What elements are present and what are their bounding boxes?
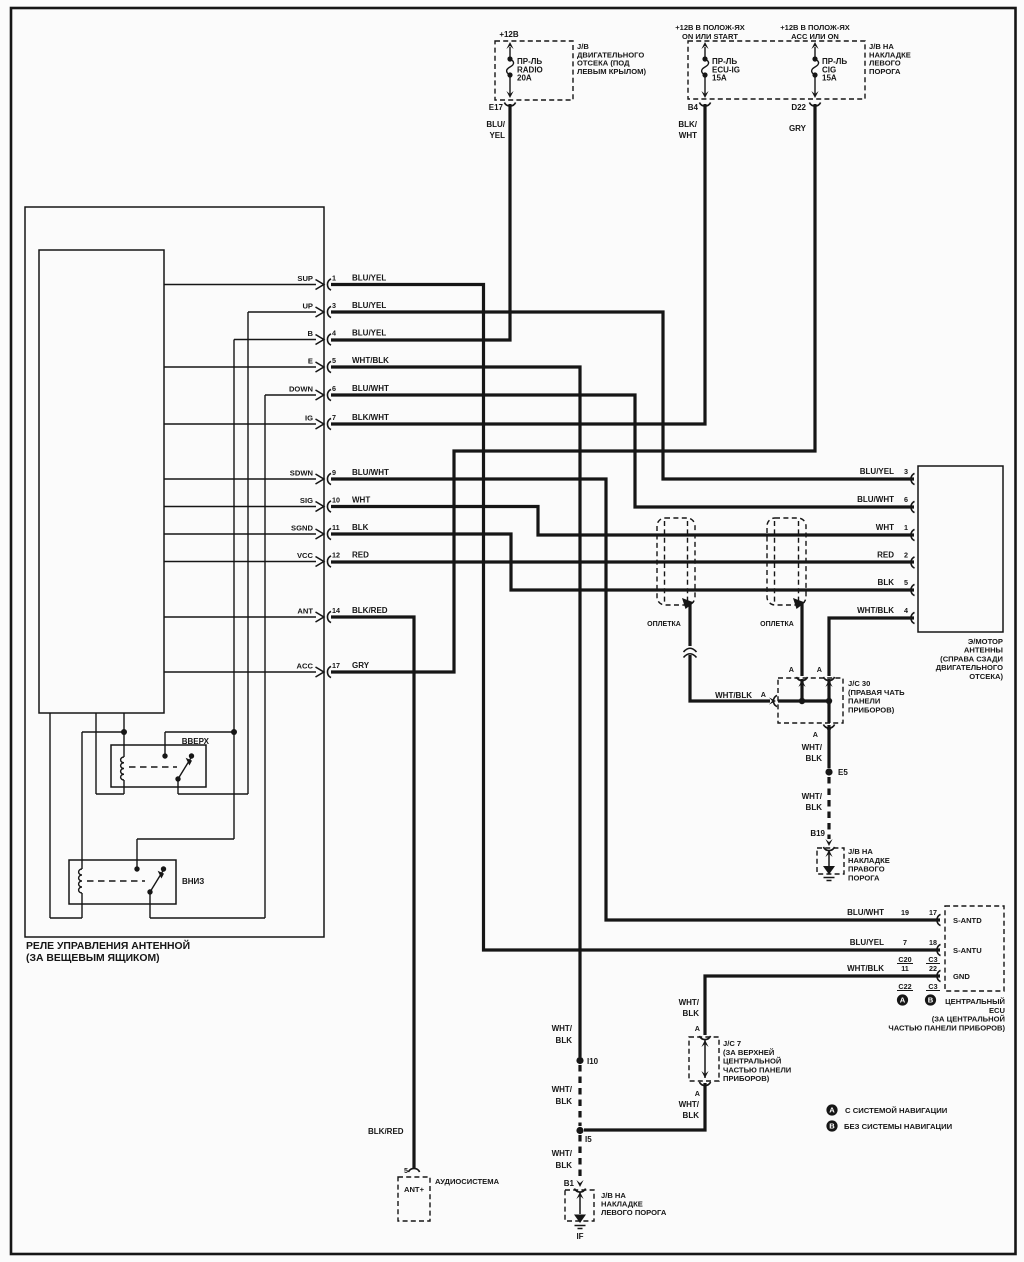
svg-text:C22: C22: [898, 982, 911, 991]
svg-text:(ЗА ВЕЩЕВЫМ ЯЩИКОМ): (ЗА ВЕЩЕВЫМ ЯЩИКОМ): [26, 953, 160, 964]
svg-text:ПРАВОГО: ПРАВОГО: [848, 865, 885, 874]
svg-text:(ЗА ЦЕНТРАЛЬНОЙ: (ЗА ЦЕНТРАЛЬНОЙ: [932, 1015, 1005, 1024]
svg-text:BLU/WHT: BLU/WHT: [352, 468, 389, 477]
svg-text:17: 17: [929, 908, 937, 917]
svg-text:3: 3: [904, 467, 908, 476]
svg-text:D22: D22: [791, 103, 806, 112]
svg-text:18: 18: [929, 938, 937, 947]
svg-text:BLU/YEL: BLU/YEL: [860, 467, 894, 476]
svg-text:(СПРАВА СЗАДИ: (СПРАВА СЗАДИ: [940, 654, 1003, 663]
svg-text:BLK: BLK: [878, 578, 895, 587]
svg-text:RED: RED: [352, 551, 369, 560]
svg-text:SGND: SGND: [291, 524, 313, 533]
svg-text:BLK/RED: BLK/RED: [352, 606, 388, 615]
svg-text:GRY: GRY: [789, 124, 807, 133]
svg-text:BLU/YEL: BLU/YEL: [352, 329, 386, 338]
svg-text:IF: IF: [576, 1232, 583, 1241]
svg-text:J/C 7: J/C 7: [723, 1039, 741, 1048]
svg-text:A: A: [817, 665, 822, 674]
svg-text:RED: RED: [877, 551, 894, 560]
svg-text:НАКЛАДКЕ: НАКЛАДКЕ: [848, 856, 890, 865]
svg-text:J/B НА: J/B НА: [848, 847, 873, 856]
svg-text:1: 1: [904, 523, 908, 532]
svg-text:15A: 15A: [822, 74, 837, 83]
svg-text:ЧАСТЬЮ ПАНЕЛИ: ЧАСТЬЮ ПАНЕЛИ: [723, 1065, 791, 1074]
svg-text:19: 19: [901, 908, 909, 917]
svg-text:C3: C3: [928, 955, 937, 964]
svg-text:14: 14: [332, 606, 340, 615]
svg-text:4: 4: [904, 606, 908, 615]
svg-text:WHT/BLK: WHT/BLK: [857, 606, 894, 615]
svg-text:WHT: WHT: [352, 496, 370, 505]
svg-text:АУДИОСИСТЕМА: АУДИОСИСТЕМА: [435, 1177, 500, 1186]
svg-text:Э/МОТОР: Э/МОТОР: [968, 637, 1003, 646]
svg-text:20A: 20A: [517, 74, 532, 83]
svg-text:ОПЛЕТКА: ОПЛЕТКА: [647, 621, 681, 628]
svg-text:BLK: BLK: [556, 1036, 573, 1045]
svg-text:ON ИЛИ START: ON ИЛИ START: [682, 32, 738, 41]
svg-text:WHT/: WHT/: [802, 743, 823, 752]
svg-text:GND: GND: [953, 972, 970, 981]
svg-text:4: 4: [332, 329, 336, 338]
svg-text:WHT/: WHT/: [679, 998, 700, 1007]
svg-text:DOWN: DOWN: [289, 385, 313, 394]
svg-text:B1: B1: [564, 1179, 575, 1188]
svg-text:БЕЗ СИСТЕМЫ НАВИГАЦИИ: БЕЗ СИСТЕМЫ НАВИГАЦИИ: [844, 1122, 953, 1131]
svg-text:BLK/WHT: BLK/WHT: [352, 413, 389, 422]
svg-text:7: 7: [903, 938, 907, 947]
svg-text:BLK/RED: BLK/RED: [368, 1127, 404, 1136]
svg-text:2: 2: [904, 551, 908, 560]
svg-text:BLK: BLK: [556, 1161, 573, 1170]
svg-text:BLK: BLK: [683, 1009, 700, 1018]
svg-text:E: E: [308, 357, 313, 366]
svg-text:BLU/WHT: BLU/WHT: [857, 495, 894, 504]
svg-text:10: 10: [332, 496, 340, 505]
svg-text:A: A: [829, 1106, 835, 1115]
svg-text:ВВЕРХ: ВВЕРХ: [182, 737, 210, 746]
svg-text:5: 5: [332, 356, 336, 365]
svg-text:ACC ИЛИ ON: ACC ИЛИ ON: [791, 32, 839, 41]
svg-text:ECU: ECU: [989, 1006, 1006, 1015]
svg-text:7: 7: [332, 413, 336, 422]
svg-text:B: B: [928, 996, 934, 1005]
svg-text:6: 6: [904, 495, 908, 504]
svg-text:15A: 15A: [712, 74, 727, 83]
svg-text:WHT/BLK: WHT/BLK: [715, 691, 752, 700]
svg-text:WHT/: WHT/: [552, 1085, 573, 1094]
svg-text:ОТСЕКА): ОТСЕКА): [969, 672, 1003, 681]
svg-text:BLU/WHT: BLU/WHT: [847, 908, 884, 917]
svg-text:ПРИБОРОВ): ПРИБОРОВ): [723, 1074, 770, 1083]
svg-text:АНТЕННЫ: АНТЕННЫ: [964, 646, 1003, 655]
svg-text:GRY: GRY: [352, 661, 370, 670]
svg-text:+12В В ПОЛОЖ-ЯХ: +12В В ПОЛОЖ-ЯХ: [675, 23, 744, 32]
svg-text:11: 11: [901, 964, 909, 973]
svg-text:B: B: [829, 1122, 835, 1131]
svg-text:BLU/WHT: BLU/WHT: [352, 384, 389, 393]
svg-text:WHT/BLK: WHT/BLK: [847, 964, 884, 973]
svg-text:A: A: [695, 1024, 700, 1033]
svg-text:ЛЕВОГО ПОРОГА: ЛЕВОГО ПОРОГА: [601, 1208, 667, 1217]
svg-text:J/C 30: J/C 30: [848, 679, 870, 688]
svg-text:I10: I10: [587, 1057, 599, 1066]
svg-text:(ЗА ВЕРХНЕЙ: (ЗА ВЕРХНЕЙ: [723, 1048, 774, 1057]
svg-text:5: 5: [404, 1166, 408, 1175]
svg-text:ПРИБОРОВ): ПРИБОРОВ): [848, 705, 895, 714]
svg-text:ПОРОГА: ПОРОГА: [848, 873, 880, 882]
svg-text:ANT+: ANT+: [404, 1185, 425, 1194]
svg-text:BLK: BLK: [352, 523, 369, 532]
svg-text:17: 17: [332, 661, 340, 670]
svg-text:ЦЕНТРАЛЬНЫЙ: ЦЕНТРАЛЬНЫЙ: [945, 997, 1005, 1006]
svg-text:A: A: [900, 996, 906, 1005]
svg-text:A: A: [789, 665, 794, 674]
svg-text:BLK: BLK: [806, 803, 823, 812]
svg-text:SDWN: SDWN: [290, 469, 313, 478]
svg-text:WHT/: WHT/: [552, 1024, 573, 1033]
svg-text:ЧАСТЬЮ ПАНЕЛИ ПРИБОРОВ): ЧАСТЬЮ ПАНЕЛИ ПРИБОРОВ): [888, 1023, 1005, 1032]
svg-text:ЦЕНТРАЛЬНОЙ: ЦЕНТРАЛЬНОЙ: [723, 1057, 781, 1066]
svg-text:SIG: SIG: [300, 496, 313, 505]
svg-text:(ПРАВАЯ ЧАТЬ: (ПРАВАЯ ЧАТЬ: [848, 688, 905, 697]
svg-text:9: 9: [332, 468, 336, 477]
svg-text:S-ANTD: S-ANTD: [953, 916, 982, 925]
svg-text:22: 22: [929, 964, 937, 973]
svg-text:C3: C3: [928, 982, 937, 991]
svg-text:ЛЕВЫМ КРЫЛОМ): ЛЕВЫМ КРЫЛОМ): [577, 67, 646, 76]
svg-text:S-ANTU: S-ANTU: [953, 946, 982, 955]
svg-text:ВНИЗ: ВНИЗ: [182, 877, 204, 886]
svg-text:1: 1: [332, 274, 336, 283]
svg-text:WHT/: WHT/: [552, 1149, 573, 1158]
svg-text:С СИСТЕМОЙ НАВИГАЦИИ: С СИСТЕМОЙ НАВИГАЦИИ: [845, 1106, 948, 1115]
svg-text:A: A: [695, 1089, 700, 1098]
svg-text:B19: B19: [810, 829, 825, 838]
svg-text:B4: B4: [688, 103, 699, 112]
svg-text:BLK: BLK: [683, 1111, 700, 1120]
svg-text:BLU/: BLU/: [486, 120, 505, 129]
svg-text:ПАНЕЛИ: ПАНЕЛИ: [848, 697, 880, 706]
svg-text:ПОРОГА: ПОРОГА: [869, 67, 901, 76]
svg-text:BLK/: BLK/: [678, 120, 697, 129]
svg-text:BLU/YEL: BLU/YEL: [352, 301, 386, 310]
svg-text:+12В В ПОЛОЖ-ЯХ: +12В В ПОЛОЖ-ЯХ: [780, 23, 849, 32]
svg-text:I5: I5: [585, 1135, 592, 1144]
svg-text:SUP: SUP: [297, 274, 313, 283]
svg-text:WHT/BLK: WHT/BLK: [352, 356, 389, 365]
svg-text:IG: IG: [305, 414, 313, 423]
svg-text:WHT: WHT: [679, 131, 697, 140]
svg-text:VCC: VCC: [297, 551, 314, 560]
svg-text:5: 5: [904, 578, 908, 587]
svg-text:3: 3: [332, 301, 336, 310]
svg-text:12: 12: [332, 551, 340, 560]
svg-text:11: 11: [332, 523, 340, 532]
svg-text:E17: E17: [489, 103, 504, 112]
svg-text:BLU/YEL: BLU/YEL: [352, 274, 386, 283]
svg-text:BLK: BLK: [806, 754, 823, 763]
svg-text:ОПЛЕТКА: ОПЛЕТКА: [760, 621, 794, 628]
svg-text:РЕЛЕ УПРАВЛЕНИЯ АНТЕННОЙ: РЕЛЕ УПРАВЛЕНИЯ АНТЕННОЙ: [26, 939, 190, 952]
svg-text:ANT: ANT: [297, 607, 313, 616]
svg-text:B: B: [308, 329, 314, 338]
svg-text:BLK: BLK: [556, 1097, 573, 1106]
svg-text:C20: C20: [898, 955, 911, 964]
svg-text:A: A: [761, 690, 766, 699]
svg-text:A: A: [813, 730, 818, 739]
svg-text:WHT/: WHT/: [679, 1100, 700, 1109]
svg-text:WHT: WHT: [876, 523, 894, 532]
svg-text:BLU/YEL: BLU/YEL: [850, 938, 884, 947]
svg-text:+12В: +12В: [499, 30, 519, 39]
svg-text:ACC: ACC: [297, 662, 314, 671]
svg-text:E5: E5: [838, 768, 848, 777]
svg-text:6: 6: [332, 384, 336, 393]
svg-text:WHT/: WHT/: [802, 792, 823, 801]
svg-text:ДВИГАТЕЛЬНОГО: ДВИГАТЕЛЬНОГО: [936, 663, 1003, 672]
svg-text:UP: UP: [302, 302, 313, 311]
svg-text:YEL: YEL: [489, 131, 505, 140]
